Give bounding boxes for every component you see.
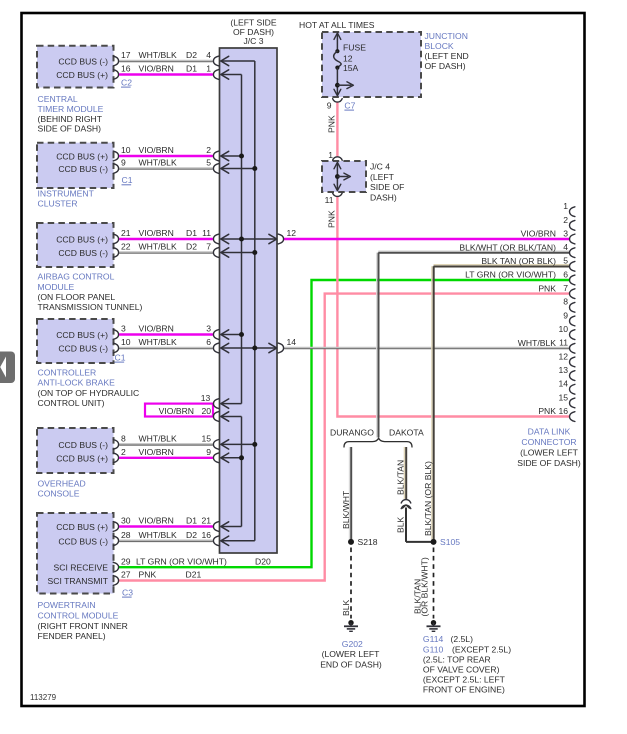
svg-text:20: 20 <box>201 406 211 416</box>
svg-text:4: 4 <box>206 50 211 60</box>
svg-text:7: 7 <box>563 283 568 293</box>
svg-text:BLOCK: BLOCK <box>425 41 454 51</box>
svg-text:SIDE OF: SIDE OF <box>370 182 404 192</box>
svg-text:9: 9 <box>327 100 332 110</box>
svg-text:(ON TOP OF HYDRAULIC: (ON TOP OF HYDRAULIC <box>38 388 140 398</box>
svg-text:BLK/TAN (OR BLK): BLK/TAN (OR BLK) <box>423 461 433 536</box>
svg-text:(LOWER LEFT: (LOWER LEFT <box>322 649 381 659</box>
svg-text:D2: D2 <box>186 530 197 540</box>
svg-text:JUNCTION: JUNCTION <box>425 31 468 41</box>
svg-text:WHT/BLK: WHT/BLK <box>139 530 177 540</box>
svg-text:16: 16 <box>201 530 211 540</box>
svg-text:16: 16 <box>558 406 568 416</box>
svg-text:CONTROL UNIT): CONTROL UNIT) <box>38 398 105 408</box>
svg-text:3: 3 <box>121 324 126 334</box>
svg-text:D1: D1 <box>186 64 197 74</box>
svg-text:CONNECTOR: CONNECTOR <box>521 437 576 447</box>
svg-text:CCD BUS (+): CCD BUS (+) <box>56 522 108 532</box>
svg-text:1: 1 <box>563 201 568 211</box>
svg-text:13: 13 <box>558 365 568 375</box>
svg-text:13: 13 <box>201 393 211 403</box>
svg-text:(2.5L): (2.5L) <box>451 634 474 644</box>
svg-text:LT GRN (OR VIO/WHT): LT GRN (OR VIO/WHT) <box>465 270 556 280</box>
svg-text:VIO/BRN: VIO/BRN <box>139 228 174 238</box>
svg-text:9: 9 <box>206 447 211 457</box>
svg-text:15A: 15A <box>343 63 359 73</box>
svg-text:(LEFT END: (LEFT END <box>425 51 469 61</box>
svg-text:CCD BUS (-): CCD BUS (-) <box>58 536 108 546</box>
svg-text:TIMER MODULE: TIMER MODULE <box>38 104 104 114</box>
svg-text:27: 27 <box>121 570 131 580</box>
svg-text:8: 8 <box>121 434 126 444</box>
svg-text:S105: S105 <box>440 537 460 547</box>
svg-text:21: 21 <box>201 516 211 526</box>
svg-text:8: 8 <box>563 297 568 307</box>
svg-text:SCI RECEIVE: SCI RECEIVE <box>54 563 109 573</box>
svg-text:12: 12 <box>558 351 568 361</box>
svg-text:PNK: PNK <box>326 115 336 133</box>
svg-text:CONSOLE: CONSOLE <box>38 488 80 498</box>
svg-text:CCD BUS (-): CCD BUS (-) <box>58 440 108 450</box>
svg-text:2: 2 <box>563 215 568 225</box>
svg-text:17: 17 <box>121 50 131 60</box>
svg-text:CCD BUS (+): CCD BUS (+) <box>56 70 108 80</box>
svg-text:OF VALVE COVER): OF VALVE COVER) <box>423 665 500 675</box>
svg-text:D1: D1 <box>186 228 197 238</box>
svg-text:1: 1 <box>328 150 333 160</box>
svg-text:5: 5 <box>563 256 568 266</box>
svg-text:30: 30 <box>121 516 131 526</box>
svg-text:VIO/BRN: VIO/BRN <box>139 145 174 155</box>
svg-text:C2: C2 <box>121 77 132 87</box>
svg-text:G114: G114 <box>423 634 444 644</box>
svg-text:CCD BUS (-): CCD BUS (-) <box>58 248 108 258</box>
svg-text:PNK: PNK <box>538 283 556 293</box>
svg-text:CCD BUS (-): CCD BUS (-) <box>58 164 108 174</box>
svg-text:LT GRN (OR VIO/WHT): LT GRN (OR VIO/WHT) <box>136 556 227 566</box>
svg-text:PNK: PNK <box>139 570 157 580</box>
svg-text:SIDE OF DASH): SIDE OF DASH) <box>517 458 581 468</box>
svg-text:4: 4 <box>563 242 568 252</box>
svg-text:6: 6 <box>563 269 568 279</box>
svg-text:VIO/BRN: VIO/BRN <box>521 229 556 239</box>
svg-text:D21: D21 <box>186 570 202 580</box>
svg-text:(LEFT: (LEFT <box>370 172 395 182</box>
svg-text:VIO/BRN: VIO/BRN <box>139 64 174 74</box>
svg-text:(BEHIND RIGHT: (BEHIND RIGHT <box>38 114 103 124</box>
svg-text:WHT/BLK: WHT/BLK <box>139 434 177 444</box>
svg-text:G202: G202 <box>342 639 363 649</box>
svg-text:2: 2 <box>121 447 126 457</box>
svg-text:CENTRAL: CENTRAL <box>38 94 78 104</box>
svg-text:WHT/BLK: WHT/BLK <box>139 337 177 347</box>
svg-text:28: 28 <box>121 530 131 540</box>
svg-text:1: 1 <box>206 64 211 74</box>
svg-text:BLK/WHT (OR BLK/TAN): BLK/WHT (OR BLK/TAN) <box>459 242 556 252</box>
svg-text:J/C 3: J/C 3 <box>243 36 263 46</box>
svg-text:HOT AT ALL TIMES: HOT AT ALL TIMES <box>299 20 375 30</box>
svg-text:CCD BUS (+): CCD BUS (+) <box>56 453 108 463</box>
svg-text:12: 12 <box>287 228 297 238</box>
svg-text:PNK: PNK <box>538 406 556 416</box>
svg-text:11: 11 <box>202 228 211 238</box>
svg-text:CCD BUS (+): CCD BUS (+) <box>56 152 108 162</box>
svg-text:C1: C1 <box>122 175 133 185</box>
svg-text:BLK: BLK <box>341 599 351 616</box>
svg-text:TRANSMISSION TUNNEL): TRANSMISSION TUNNEL) <box>38 302 143 312</box>
svg-text:CCD BUS (+): CCD BUS (+) <box>56 235 108 245</box>
svg-text:11: 11 <box>559 338 568 348</box>
svg-text:WHT/BLK: WHT/BLK <box>139 158 177 168</box>
svg-text:FUSE: FUSE <box>343 43 366 53</box>
svg-text:WHT/BLK: WHT/BLK <box>518 338 556 348</box>
svg-text:5: 5 <box>206 158 211 168</box>
svg-text:C3: C3 <box>122 587 133 597</box>
svg-text:CONTROL MODULE: CONTROL MODULE <box>38 610 119 620</box>
svg-text:14: 14 <box>558 379 568 389</box>
svg-text:(EXCEPT 2.5L): (EXCEPT 2.5L) <box>452 644 511 654</box>
svg-text:11: 11 <box>325 195 334 205</box>
svg-text:CONTROLLER: CONTROLLER <box>38 367 97 377</box>
svg-text:2: 2 <box>206 145 211 155</box>
svg-text:CLUSTER: CLUSTER <box>38 198 78 208</box>
svg-text:16: 16 <box>121 64 131 74</box>
svg-text:D2: D2 <box>186 242 197 252</box>
svg-text:VIO/BRN: VIO/BRN <box>139 516 174 526</box>
svg-text:BLK/TAN: BLK/TAN <box>396 460 406 495</box>
svg-text:CCD BUS (-): CCD BUS (-) <box>58 57 108 67</box>
svg-text:DASH): DASH) <box>370 192 397 202</box>
svg-text:9: 9 <box>121 158 126 168</box>
svg-text:BLK: BLK <box>396 516 406 533</box>
svg-text:OF DASH): OF DASH) <box>425 61 466 71</box>
svg-text:CCD BUS (+): CCD BUS (+) <box>56 330 108 340</box>
svg-text:J/C 4: J/C 4 <box>370 161 390 171</box>
svg-text:D2: D2 <box>186 50 197 60</box>
svg-text:SIDE OF DASH): SIDE OF DASH) <box>38 124 102 134</box>
svg-text:29: 29 <box>121 556 131 566</box>
svg-text:7: 7 <box>206 242 211 252</box>
svg-text:WHT/BLK: WHT/BLK <box>139 242 177 252</box>
svg-text:21: 21 <box>121 228 131 238</box>
svg-text:(LOWER LEFT: (LOWER LEFT <box>520 447 579 457</box>
svg-text:MODULE: MODULE <box>38 282 75 292</box>
svg-text:(RIGHT FRONT INNER: (RIGHT FRONT INNER <box>38 621 128 631</box>
svg-text:PNK: PNK <box>326 210 336 228</box>
svg-text:14: 14 <box>287 337 297 347</box>
svg-text:VIO/BRN: VIO/BRN <box>139 447 174 457</box>
svg-text:6: 6 <box>206 337 211 347</box>
svg-text:G110: G110 <box>423 644 444 654</box>
svg-text:SCI TRANSMIT: SCI TRANSMIT <box>48 576 109 586</box>
svg-text:WHT/BLK: WHT/BLK <box>139 50 177 60</box>
svg-text:ANTI-LOCK BRAKE: ANTI-LOCK BRAKE <box>38 378 116 388</box>
svg-text:FENDER PANEL): FENDER PANEL) <box>38 631 106 641</box>
svg-text:DURANGO: DURANGO <box>330 428 374 438</box>
svg-text:15: 15 <box>558 392 568 402</box>
svg-text:(2.5L: TOP REAR: (2.5L: TOP REAR <box>423 654 491 664</box>
svg-text:10: 10 <box>121 145 131 155</box>
svg-text:VIO/BRN: VIO/BRN <box>159 406 194 416</box>
svg-text:AIRBAG CONTROL: AIRBAG CONTROL <box>38 272 115 282</box>
svg-text:10: 10 <box>558 324 568 334</box>
svg-text:VIO/BRN: VIO/BRN <box>139 324 174 334</box>
svg-text:POWERTRAIN: POWERTRAIN <box>38 600 96 610</box>
svg-text:BLK/WHT: BLK/WHT <box>341 490 351 529</box>
svg-text:OVERHEAD: OVERHEAD <box>38 478 86 488</box>
svg-text:FRONT OF ENGINE): FRONT OF ENGINE) <box>423 685 505 695</box>
svg-text:113279: 113279 <box>30 693 57 702</box>
svg-text:S218: S218 <box>358 537 378 547</box>
svg-text:10: 10 <box>121 337 131 347</box>
svg-text:DAKOTA: DAKOTA <box>389 428 424 438</box>
svg-text:CCD BUS (-): CCD BUS (-) <box>58 344 108 354</box>
svg-text:DATA LINK: DATA LINK <box>528 427 571 437</box>
svg-text:C7: C7 <box>344 100 355 110</box>
svg-text:(OR BLK/WHT): (OR BLK/WHT) <box>420 557 430 616</box>
svg-text:9: 9 <box>563 310 568 320</box>
svg-text:(ON FLOOR PANEL: (ON FLOOR PANEL <box>38 292 116 302</box>
svg-text:3: 3 <box>563 228 568 238</box>
svg-text:C1: C1 <box>115 352 126 362</box>
svg-text:INSTRUMENT: INSTRUMENT <box>38 188 95 198</box>
svg-text:D1: D1 <box>186 516 197 526</box>
svg-text:D20: D20 <box>255 556 271 566</box>
svg-text:BLK TAN (OR BLK): BLK TAN (OR BLK) <box>481 256 556 266</box>
svg-text:(EXCEPT 2.5L: LEFT: (EXCEPT 2.5L: LEFT <box>423 675 506 685</box>
svg-text:22: 22 <box>121 242 131 252</box>
svg-text:15: 15 <box>201 434 211 444</box>
svg-text:3: 3 <box>206 324 211 334</box>
svg-text:END OF DASH): END OF DASH) <box>320 660 382 670</box>
